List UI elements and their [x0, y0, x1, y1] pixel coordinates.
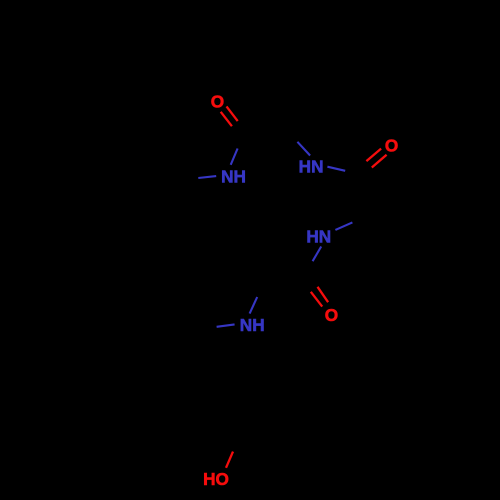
bond N4-C left (blue half) [217, 324, 235, 326]
svg-text:O: O [325, 305, 338, 325]
svg-text:O: O [385, 135, 398, 155]
bond N1-C left (blue half) [198, 176, 216, 178]
carbonyl C2=O2 double bond (red half, line 1) [366, 149, 381, 162]
carbonyl C3=O3 double bond (red half, line 2) [318, 287, 329, 302]
svg-text:HN: HN [299, 156, 324, 176]
carbonyl C3=O3 double bond (red half, line 1) [311, 292, 322, 307]
bond N1-C1 (blue half) [231, 149, 238, 165]
svg-text:NH: NH [221, 166, 246, 186]
svg-text:HN: HN [306, 226, 331, 246]
carbonyl C1=O1 double bond (red half, line 1) [221, 112, 232, 126]
svg-text:HO: HO [203, 469, 229, 489]
bond N2-C up-left (blue half) [297, 142, 310, 156]
carbonyl C2=O2 double bond (red half, line 2) [372, 155, 387, 168]
bond N3-C3 down-left (blue half) [313, 247, 322, 262]
bond N2-C2 right (blue half) [327, 167, 345, 171]
bond N3-C up-right (blue half) [335, 222, 352, 230]
carbonyl C1=O1 double bond (red half, line 2) [227, 106, 238, 121]
bond N4-C up-right (blue half) [250, 297, 258, 314]
svg-text:NH: NH [240, 315, 265, 335]
svg-text:O: O [211, 91, 224, 111]
bond O-C of hydroxyl (red half) [226, 452, 233, 468]
